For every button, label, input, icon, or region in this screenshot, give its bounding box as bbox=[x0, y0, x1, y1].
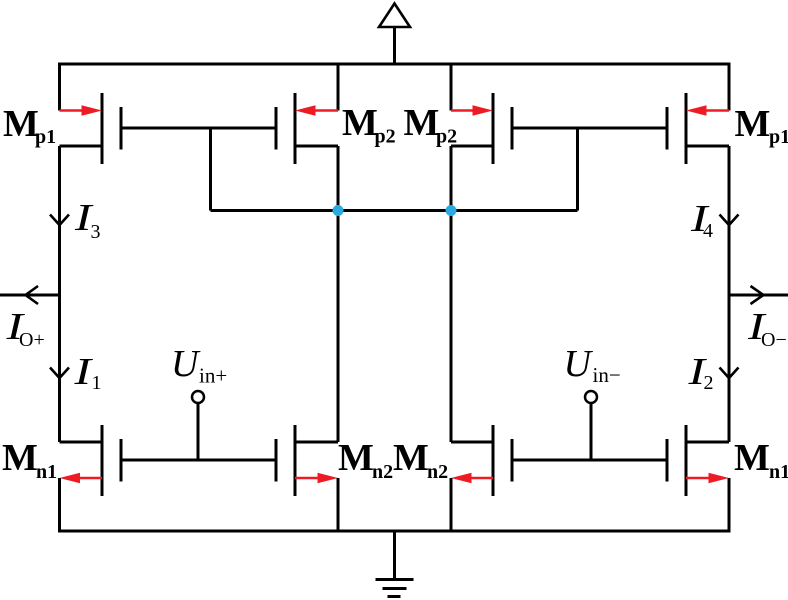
svg-text:O−: O− bbox=[761, 329, 787, 351]
transistor Mn1 right: channel bar bbox=[685, 425, 688, 496]
transistor Mp1 left: gate bar bbox=[120, 107, 123, 150]
transistor Mn2 left: gate bar bbox=[275, 439, 278, 482]
transistor Mn1 right: drain lead bbox=[686, 441, 729, 444]
arrow IO- bbox=[751, 286, 764, 304]
transistor Mp1 right: gate bar bbox=[666, 107, 669, 150]
arrow I4 bbox=[720, 215, 739, 226]
transistor Mp1 left: channel bar bbox=[101, 93, 104, 164]
svg-text:M: M bbox=[735, 103, 771, 145]
svg-text:2: 2 bbox=[704, 372, 714, 394]
wire gate bus Mp2-Mp1 right bbox=[512, 127, 667, 130]
wire gate drop left bbox=[209, 128, 212, 211]
wire mid bias rail bbox=[211, 209, 578, 212]
transistor Mp2 right: drain lead bbox=[451, 145, 493, 148]
wire left rail (I3/I1 branch) bbox=[58, 146, 61, 442]
wire gate bus Mn2-Mn1 right bbox=[512, 459, 667, 462]
node junction left (blue) bbox=[333, 205, 344, 216]
wire inner-left rail drain bbox=[337, 146, 340, 442]
wire output IO+ bbox=[0, 294, 60, 297]
svg-text:U: U bbox=[564, 343, 594, 385]
svg-text:M: M bbox=[338, 437, 374, 479]
wire drop to Mp2 right source bbox=[450, 64, 453, 111]
svg-text:M: M bbox=[404, 102, 440, 144]
wire gate bus Mn1-Mn2 left bbox=[121, 459, 276, 462]
transistor Mp2 left: drain lead bbox=[295, 145, 338, 148]
transistor Mp1 left: source arrow (red) bbox=[60, 105, 103, 116]
svg-text:O+: O+ bbox=[19, 329, 45, 351]
wire VDD stem bbox=[393, 27, 396, 64]
transistor Mn2 left: source arrow (red) bbox=[295, 473, 338, 484]
wire drop Mn2 left source bbox=[337, 478, 340, 531]
svg-text:n1: n1 bbox=[769, 461, 788, 483]
transistor Mp2 right: gate bar bbox=[511, 107, 514, 150]
transistor Mn1 left: source arrow (red) bbox=[60, 473, 103, 484]
transistor Mp2 left: gate bar bbox=[275, 107, 278, 150]
svg-text:p1: p1 bbox=[769, 126, 788, 148]
svg-text:M: M bbox=[2, 437, 38, 479]
svg-text:1: 1 bbox=[92, 372, 102, 394]
transistor Mn1 left: channel bar bbox=[101, 425, 104, 496]
transistor Mn2 left: channel bar bbox=[294, 425, 297, 496]
svg-text:M: M bbox=[393, 437, 429, 479]
transistor Mn1 right: source arrow (red) bbox=[686, 473, 729, 484]
arrow I1 bbox=[50, 368, 69, 379]
transistor Mn1 left: gate bar bbox=[120, 439, 123, 482]
arrow I2 bbox=[720, 368, 739, 379]
transistor Mn2 right: channel bar bbox=[492, 425, 495, 496]
svg-text:M: M bbox=[734, 437, 770, 479]
ground bbox=[393, 531, 396, 580]
svg-text:4: 4 bbox=[703, 220, 713, 242]
svg-text:in−: in− bbox=[593, 363, 621, 387]
arrow IO+ bbox=[26, 286, 39, 304]
wire drop Mn2 right source bbox=[450, 478, 453, 531]
svg-text:p2: p2 bbox=[436, 126, 457, 148]
transistor Mn2 right: drain lead bbox=[451, 441, 493, 444]
svg-text:p1: p1 bbox=[35, 126, 56, 148]
wire Uin+ stem bbox=[197, 404, 200, 461]
wire bottom rail GND bbox=[60, 478, 730, 531]
wire gate drop right bbox=[576, 128, 579, 211]
transistor Mp2 right: channel bar bbox=[492, 93, 495, 164]
svg-text:n1: n1 bbox=[36, 461, 57, 483]
svg-text:n2: n2 bbox=[372, 461, 393, 483]
transistor Mn2 left: drain lead bbox=[295, 441, 338, 444]
transistor Mp1 left: drain lead bbox=[60, 145, 103, 148]
transistor Mn2 right: gate bar bbox=[511, 439, 514, 482]
transistor Mn2 right: source arrow (red) bbox=[451, 473, 493, 484]
arrow I3 bbox=[50, 215, 69, 226]
svg-text:in+: in+ bbox=[199, 364, 227, 388]
wire inner-right rail drain bbox=[450, 146, 453, 442]
transistor Mp2 right: source arrow (red) bbox=[451, 105, 493, 116]
transistor Mp1 right: channel bar bbox=[685, 93, 688, 164]
transistor Mn1 right: gate bar bbox=[666, 439, 669, 482]
svg-text:n2: n2 bbox=[427, 461, 448, 483]
wire Uin- stem bbox=[590, 404, 593, 461]
wire right rail (I4/I2 branch) bbox=[728, 146, 731, 442]
transistor Mp2 left: channel bar bbox=[294, 93, 297, 164]
wire gate bus Mp1-Mp2 left bbox=[121, 127, 276, 130]
wire drop to Mp2 left source bbox=[337, 64, 340, 111]
node junction right (blue) bbox=[446, 205, 457, 216]
svg-text:M: M bbox=[3, 103, 39, 145]
svg-text:U: U bbox=[171, 343, 201, 385]
svg-text:M: M bbox=[342, 102, 378, 144]
svg-text:3: 3 bbox=[91, 221, 101, 243]
transistor Mp2 left: source arrow (red) bbox=[295, 105, 338, 116]
wire top rail VDD bbox=[60, 64, 730, 111]
transistor Mp1 right: drain lead bbox=[686, 145, 729, 148]
input terminal Uin- bbox=[585, 391, 597, 403]
transistor Mp1 right: source arrow (red) bbox=[686, 105, 729, 116]
svg-text:p2: p2 bbox=[375, 126, 396, 148]
wire output IO- bbox=[729, 294, 788, 297]
VDD symbol bbox=[379, 4, 410, 28]
input terminal Uin+ bbox=[192, 391, 204, 403]
transistor Mn1 left: drain lead bbox=[60, 441, 103, 444]
